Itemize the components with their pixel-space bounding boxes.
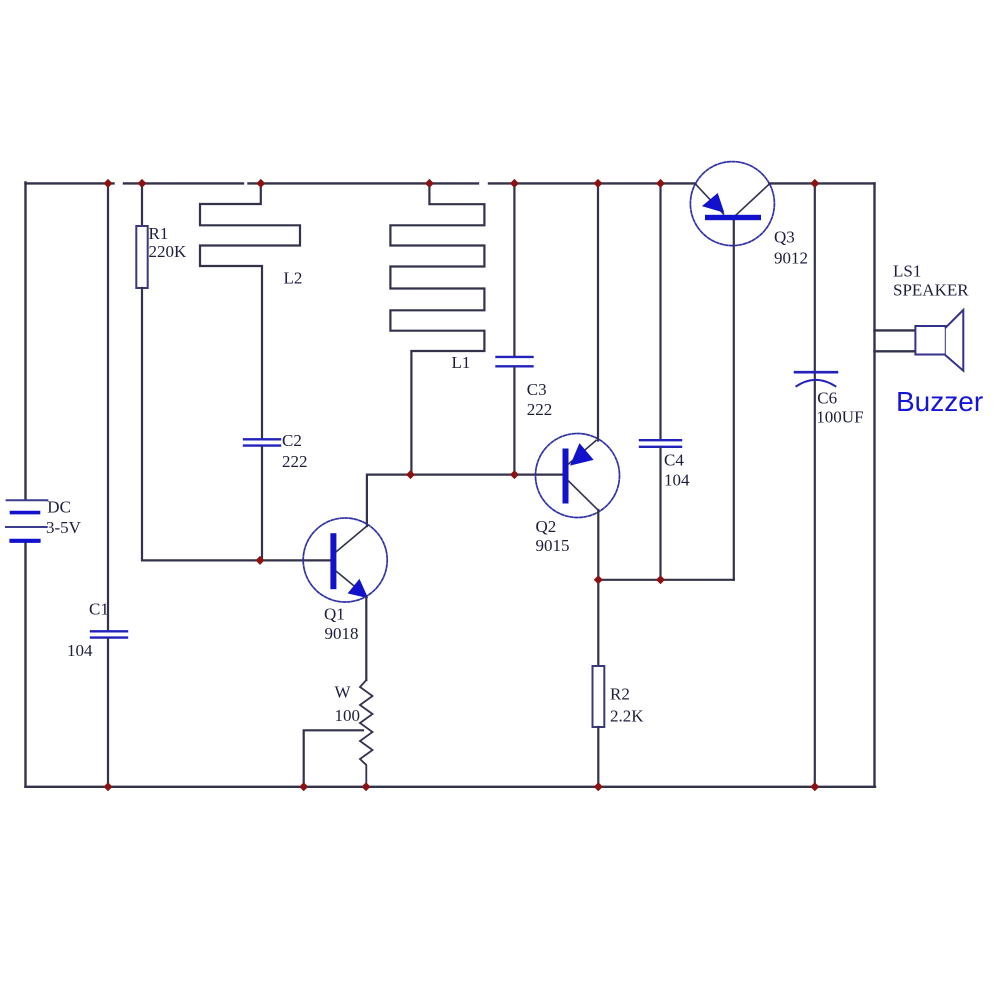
wire R2 node horizontal — [598, 579, 734, 581]
svg-text:2.2K: 2.2K — [610, 706, 644, 725]
junction top rail R1 — [138, 179, 147, 188]
svg-text:Buzzer: Buzzer — [896, 386, 983, 417]
wire speaker top stub — [875, 329, 916, 331]
capacitor C6 — [795, 182, 837, 786]
svg-text:C3: C3 — [527, 380, 547, 399]
capacitor C2 — [244, 439, 280, 560]
transistor Q3 — [690, 162, 774, 246]
wire right speaker branch — [873, 183, 875, 786]
battery DC 3-5V — [6, 500, 47, 541]
svg-text:9015: 9015 — [536, 536, 570, 555]
junction top rail C1 — [104, 179, 113, 188]
wire Q2 collector to R2 node — [597, 510, 599, 580]
resistor R1 — [136, 182, 147, 288]
wire Q1 emitter to potentiometer W — [365, 597, 367, 680]
junction node C3 base wire — [510, 470, 519, 479]
junction top rail L2 — [256, 179, 265, 188]
junction node C4 R2 wire — [656, 575, 665, 584]
svg-text:C4: C4 — [664, 450, 684, 469]
wire top rail to Q2 emitter — [597, 182, 599, 440]
junction top rail C4 — [656, 179, 665, 188]
wire speaker bottom stub — [875, 350, 916, 352]
capacitor C3 — [497, 182, 533, 474]
junction bottom rail R2 — [594, 782, 603, 791]
wire left battery branch upper — [24, 182, 26, 499]
wire Q1 collector to Q2 base — [367, 475, 563, 526]
potentiometer W tap wire — [304, 730, 363, 787]
junction node C2 Q1 base — [256, 556, 265, 565]
wire bottom ground rail — [26, 786, 876, 788]
svg-text:Q2: Q2 — [536, 517, 557, 536]
svg-text:R1: R1 — [149, 224, 169, 243]
svg-text:3-5V: 3-5V — [46, 518, 82, 537]
transistor Q1 — [303, 518, 387, 602]
svg-text:220K: 220K — [149, 242, 188, 261]
junction bottom rail W tap — [299, 782, 308, 791]
speaker LS1 — [915, 310, 963, 371]
inductor L2 — [200, 183, 300, 438]
junction bottom rail C6 — [810, 782, 819, 791]
junction bottom rail W — [362, 782, 371, 791]
svg-text:104: 104 — [67, 641, 93, 660]
svg-text:222: 222 — [282, 452, 308, 471]
svg-text:100: 100 — [335, 706, 361, 725]
svg-text:SPEAKER: SPEAKER — [893, 281, 969, 300]
svg-text:C6: C6 — [817, 389, 837, 408]
wire R1 bottom to Q1 base — [142, 288, 331, 560]
junction top rail L1 — [425, 179, 434, 188]
svg-text:L2: L2 — [284, 269, 303, 288]
junction top rail C6 — [810, 179, 819, 188]
svg-text:C1: C1 — [89, 600, 109, 619]
svg-text:Q3: Q3 — [774, 227, 795, 246]
svg-text:C2: C2 — [282, 431, 302, 450]
svg-text:222: 222 — [527, 400, 553, 419]
wire left battery branch lower — [24, 543, 26, 787]
svg-text:DC: DC — [47, 497, 71, 516]
svg-text:W: W — [335, 682, 352, 701]
svg-text:9012: 9012 — [774, 248, 808, 267]
svg-text:104: 104 — [664, 470, 690, 489]
svg-text:100UF: 100UF — [816, 408, 863, 427]
svg-text:LS1: LS1 — [893, 262, 921, 281]
capacitor C4 — [640, 182, 681, 579]
junction bottom rail C1 — [104, 782, 113, 791]
potentiometer W — [360, 680, 373, 787]
junction node L1 base wire — [406, 470, 415, 479]
junction top rail Q2 emitter — [594, 179, 603, 188]
svg-text:9018: 9018 — [325, 624, 359, 643]
wire top supply rail — [26, 182, 875, 184]
svg-text:Q1: Q1 — [324, 605, 345, 624]
transistor Q2 — [536, 434, 620, 518]
svg-text:R2: R2 — [610, 684, 630, 703]
svg-text:L1: L1 — [452, 353, 471, 372]
junction top rail C3 — [510, 179, 519, 188]
junction node Q2 collector R2 — [594, 575, 603, 584]
inductor L1 — [390, 183, 484, 474]
capacitor C1 — [91, 182, 127, 786]
resistor R2 — [593, 580, 605, 787]
wire Q3 base down to R2 node — [733, 220, 735, 580]
